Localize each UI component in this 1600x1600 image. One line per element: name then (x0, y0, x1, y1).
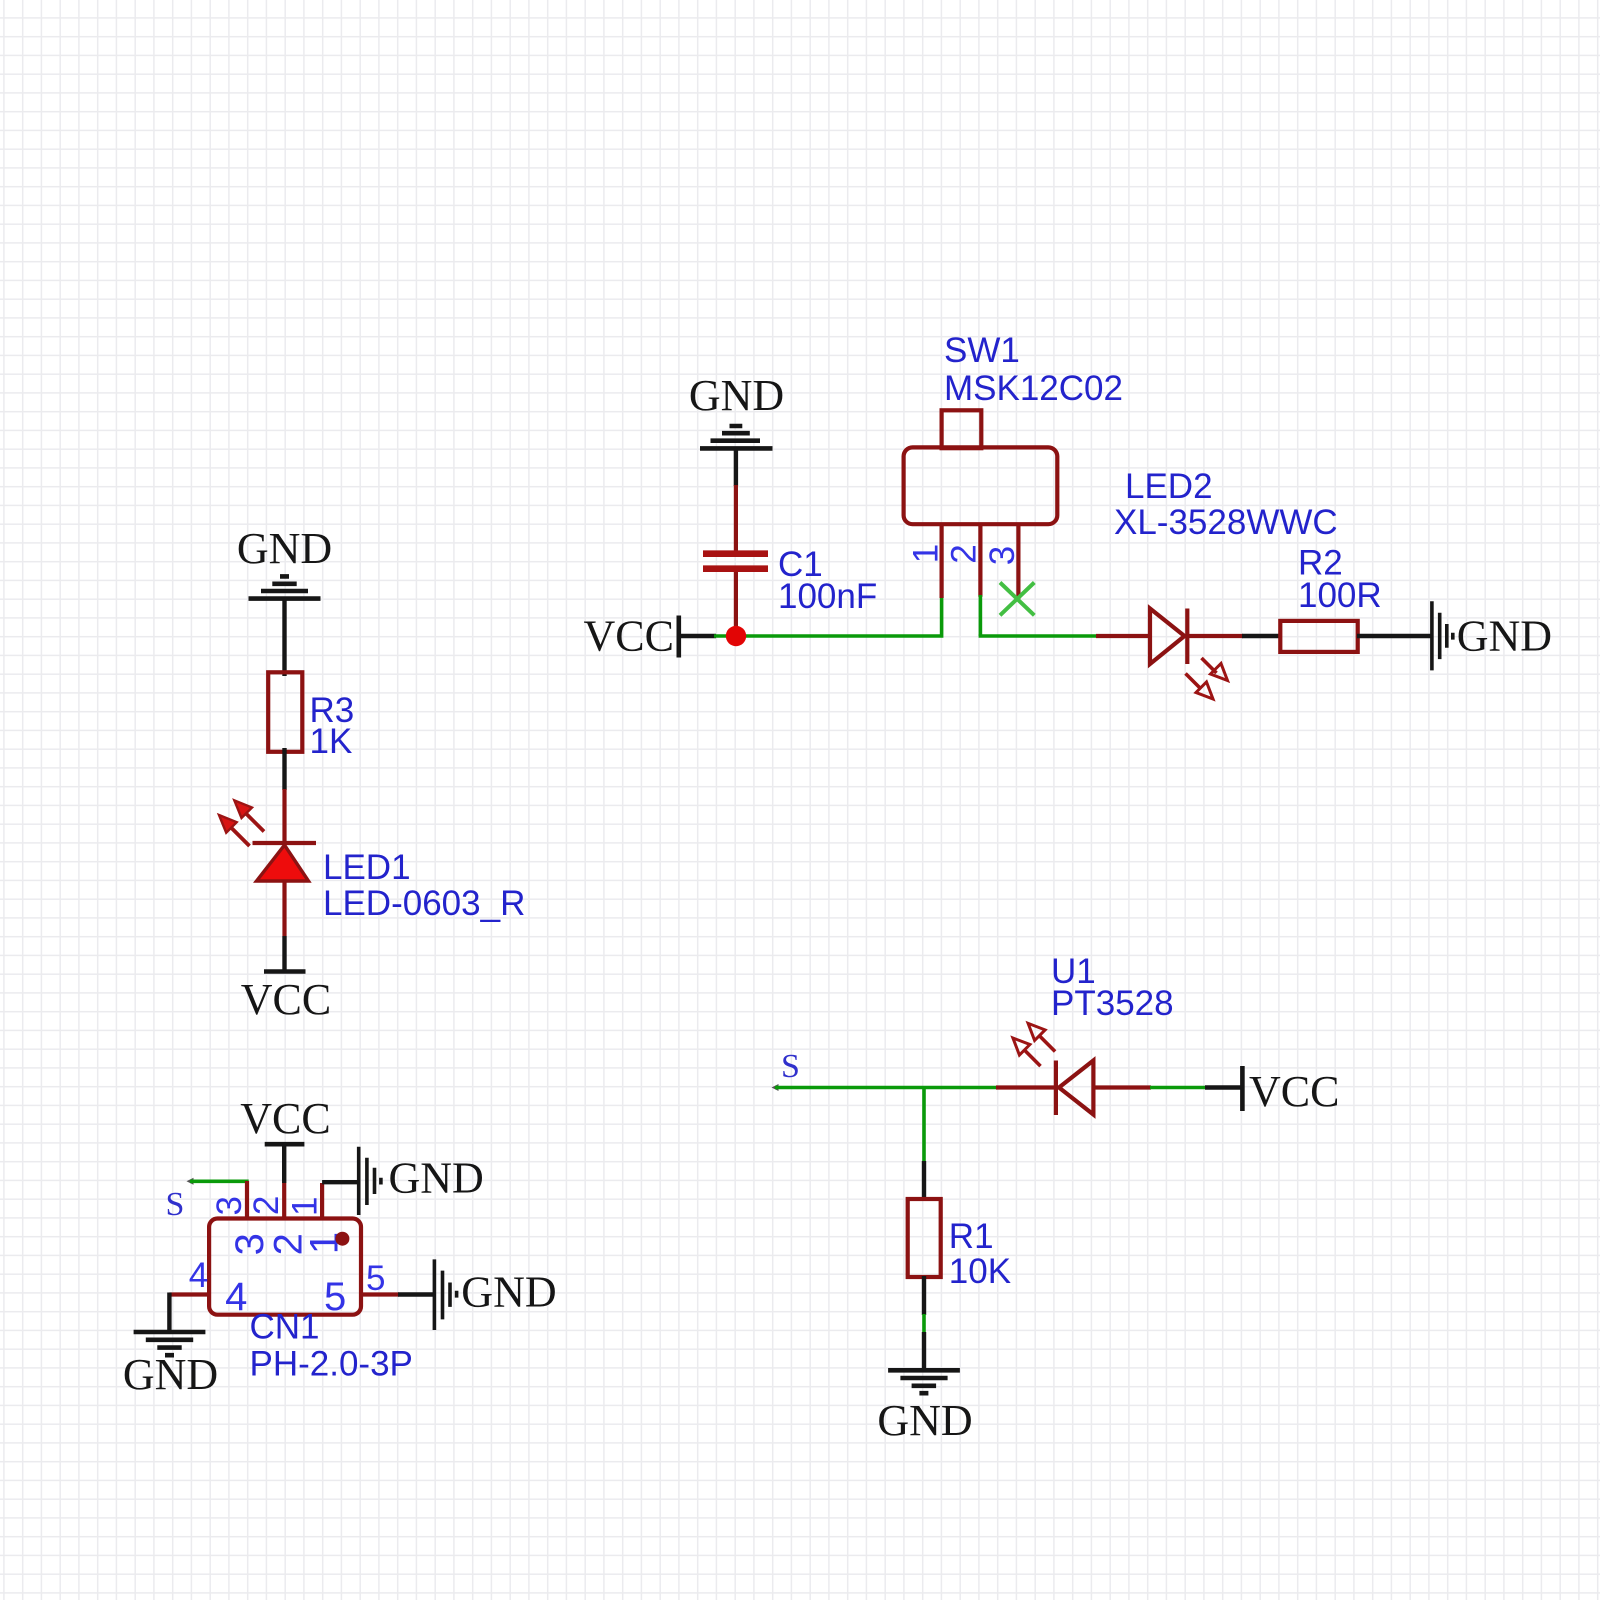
pin number 3 (top) (210, 1196, 249, 1215)
svg-text:VCC: VCC (241, 975, 331, 1024)
svg-text:1K: 1K (310, 722, 353, 761)
CN1 pin 3 (245, 1181, 249, 1219)
pin number 1 (top) (285, 1196, 324, 1215)
label U1 (1051, 952, 1096, 991)
svg-text:4: 4 (189, 1256, 208, 1295)
value MSK12C02 (944, 369, 1123, 408)
wire S to CN1 pin3 (190, 1180, 249, 1184)
wire R1 top black (922, 1161, 926, 1200)
SW1 pin 1 (939, 524, 943, 598)
svg-text:GND: GND (389, 1154, 484, 1203)
wire CN1 pin4 to GND (167, 1293, 171, 1333)
label CN1 (250, 1308, 320, 1347)
svg-text:PT3528: PT3528 (1051, 984, 1174, 1023)
svg-text:VCC: VCC (240, 1094, 330, 1143)
net label VCC (left column) (241, 975, 331, 1024)
capacitor C1 (703, 485, 768, 631)
svg-text:5: 5 (324, 1275, 346, 1319)
net label VCC (mid row) (584, 612, 674, 661)
wire to GND (U1) (922, 1332, 926, 1370)
CN1 pin 5 (361, 1292, 399, 1296)
svg-text:GND: GND (877, 1396, 972, 1445)
CN1 pin1 marker dot (335, 1232, 349, 1246)
pin number 2 (944, 544, 983, 563)
CN1 pin 1 (320, 1183, 324, 1219)
wire VCC black segment (1205, 1085, 1242, 1089)
svg-text:5: 5 (366, 1259, 385, 1298)
LED D1 cathode pin (282, 789, 286, 843)
svg-text:100nF: 100nF (778, 577, 877, 616)
power VCC bar (U1) (1240, 1066, 1245, 1111)
pin number 4 (outside) (189, 1256, 248, 1319)
svg-text:S: S (781, 1048, 800, 1085)
ground (CN1 pin4) (134, 1332, 206, 1355)
value PT3528 (1051, 984, 1174, 1023)
wire CN1 pin1 to GND flag (322, 1180, 359, 1184)
svg-text:PH-2.0-3P: PH-2.0-3P (250, 1345, 413, 1384)
svg-text:LED2: LED2 (1125, 467, 1213, 506)
resistor R1 (908, 1199, 941, 1277)
power VCC bar (mid row) (676, 616, 681, 658)
svg-text:2: 2 (247, 1196, 286, 1215)
no-connect X on pin 3 (1000, 583, 1034, 616)
LED LED1 (253, 843, 317, 936)
svg-text:10K: 10K (949, 1252, 1011, 1291)
svg-text:GND: GND (123, 1350, 218, 1399)
label LED1 (323, 848, 411, 887)
label LED2 (1125, 467, 1213, 506)
svg-text:3: 3 (210, 1196, 249, 1215)
U1 anode pin (996, 1085, 1056, 1089)
ground flag (CN1 pin1) (359, 1147, 381, 1215)
wire S to U1 anode (775, 1086, 997, 1090)
netflag S (U1) arrow (772, 1084, 779, 1091)
svg-text:VCC: VCC (1249, 1067, 1339, 1116)
svg-text:1: 1 (285, 1196, 324, 1215)
net label GND (right of R2) (1457, 612, 1552, 661)
wire junction to SW1 pin1 (714, 597, 942, 637)
svg-text:S: S (166, 1186, 185, 1223)
svg-text:CN1: CN1 (250, 1308, 320, 1347)
svg-text:3: 3 (983, 546, 1022, 565)
label C1 (778, 545, 823, 584)
value PH-2.0-3P (250, 1345, 413, 1384)
wire R3 to LED1 (282, 748, 286, 790)
net label VCC (above CN1) (240, 1094, 330, 1143)
ground flag (CN1 pin5) (434, 1259, 456, 1330)
label R1 (949, 1217, 994, 1256)
svg-text:GND: GND (689, 371, 784, 420)
LED U1 (PT3528) (1056, 1061, 1151, 1116)
pin number 3 (983, 546, 1022, 565)
svg-text:GND: GND (1457, 612, 1552, 661)
net label GND (CN1 pin1) (389, 1154, 484, 1203)
net label GND (above C1) (689, 371, 784, 420)
power VCC (left column) (264, 969, 306, 974)
CN1 pin 4 (169, 1292, 210, 1296)
net label GND (CN1 pin5) (461, 1268, 556, 1317)
net label S (CN1) (166, 1186, 185, 1223)
pin number 5 (324, 1259, 385, 1319)
LED2 emission arrows (1186, 658, 1228, 699)
pin name 2 (inside) (266, 1233, 310, 1255)
wire green segment below R1 (922, 1314, 926, 1333)
wire U1 to VCC (1150, 1086, 1206, 1090)
svg-text:LED-0603_R: LED-0603_R (323, 884, 525, 923)
pin name 1 (inside) (303, 1232, 347, 1254)
net label S (U1) (781, 1048, 800, 1085)
label R3 (310, 691, 355, 730)
net label GND (CN1 pin4) (123, 1350, 218, 1399)
LED LED2 (1150, 609, 1243, 665)
net label GND (below R1) (877, 1396, 972, 1445)
label SW1 (944, 331, 1020, 370)
wire LED2 to R2 (1242, 634, 1281, 638)
wire LED1 to VCC (282, 936, 286, 971)
wire SW1 pin2 to LED2 (979, 634, 1097, 638)
pin name 3 (inside) (228, 1233, 272, 1255)
resistor R2 (1280, 621, 1357, 652)
ground (above C1, flipped up) (700, 426, 773, 448)
ground (left column, flipped up) (249, 576, 321, 598)
junction dot (726, 626, 746, 646)
LED2 anode pin (1096, 634, 1151, 638)
wire CN1 pin5 to GND flag (398, 1292, 435, 1296)
value 100nF (778, 577, 877, 616)
wire R1 bottom (922, 1276, 926, 1315)
svg-text:GND: GND (237, 524, 332, 573)
SW1 pin 2 (978, 524, 982, 597)
svg-text:VCC: VCC (584, 612, 674, 661)
svg-text:2: 2 (944, 544, 983, 563)
resistor R3 (268, 672, 302, 752)
wire R2 to GND (1357, 634, 1432, 638)
power VCC bar (above CN1) (265, 1142, 305, 1147)
svg-text:SW1: SW1 (944, 331, 1020, 370)
label R2 (1298, 544, 1343, 583)
svg-text:R1: R1 (949, 1217, 994, 1256)
wire junction to R1 (922, 1088, 926, 1163)
netflag S (CN1) arrow (187, 1178, 194, 1185)
value XL-3528WWC (1114, 503, 1338, 542)
wire SW1 pin2 vertical (979, 595, 983, 636)
U1 emission arrows (1013, 1023, 1055, 1066)
svg-text:LED1: LED1 (323, 848, 411, 887)
SW1 pin 3 (1016, 524, 1020, 599)
svg-text:4: 4 (225, 1275, 247, 1319)
svg-text:GND: GND (461, 1268, 556, 1317)
value 100R (1298, 576, 1382, 615)
wire GND to R3 (282, 598, 286, 676)
ground (below R1) (888, 1370, 960, 1393)
switch SW1 body (904, 410, 1058, 524)
CN1 pin 2 (282, 1183, 286, 1219)
pin number 1 (907, 544, 946, 563)
net label VCC (U1) (1249, 1067, 1339, 1116)
svg-text:3: 3 (228, 1233, 272, 1255)
svg-text:XL-3528WWC: XL-3528WWC (1114, 503, 1338, 542)
value 1K (310, 722, 353, 761)
value LED-0603_R (323, 884, 525, 923)
wire VCC to junction (679, 634, 716, 638)
ground flag (right of R2) (1432, 601, 1453, 670)
svg-text:100R: 100R (1298, 576, 1382, 615)
connector CN1 body (209, 1219, 361, 1315)
wire VCC to CN1 pin2 (282, 1144, 286, 1183)
net label GND (left column) (237, 524, 332, 573)
pin number 2 (top) (247, 1196, 286, 1215)
svg-text:1: 1 (907, 544, 946, 563)
wire GND to C1 (734, 448, 738, 486)
value 10K (949, 1252, 1011, 1291)
LED1 emission arrows (219, 800, 264, 846)
svg-text:MSK12C02: MSK12C02 (944, 369, 1123, 408)
